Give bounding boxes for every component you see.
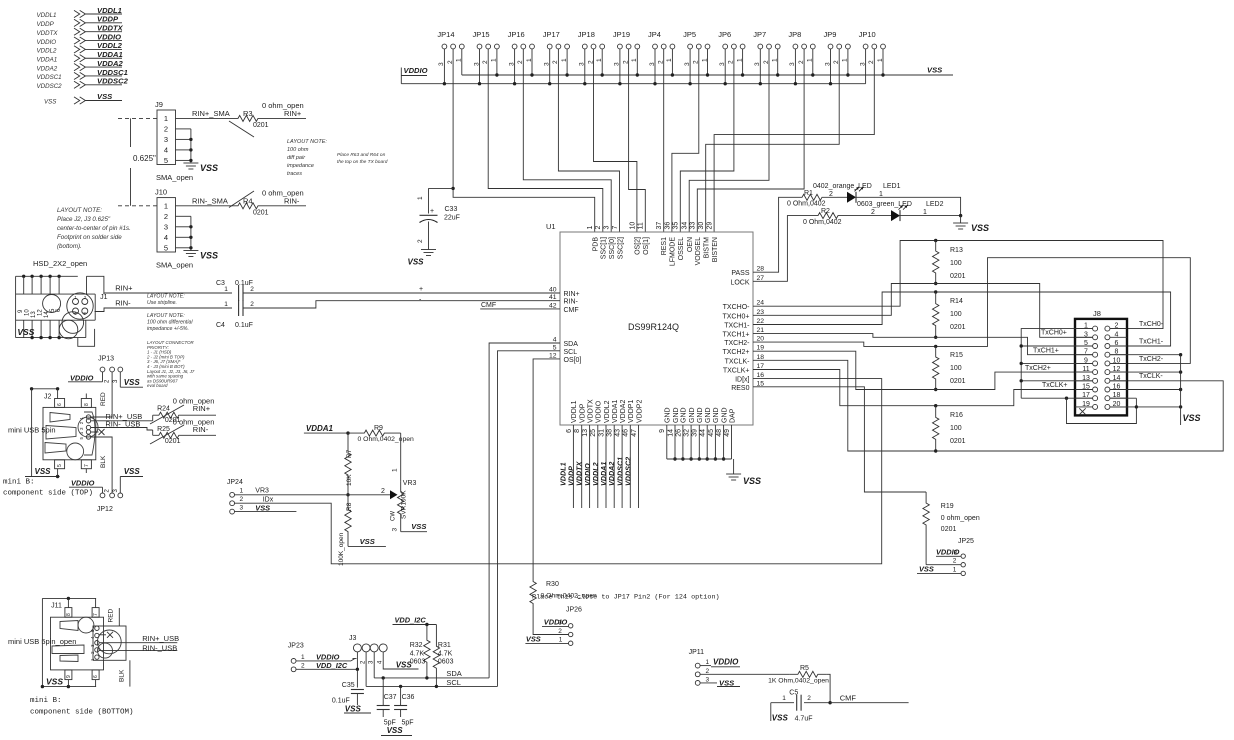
svg-text:1: 1 [224, 286, 228, 293]
wire net TXCH2+ U1 pin19 to J8 pin11 [753, 351, 1092, 389]
wire RIN-_USB from J2 pin3 [91, 420, 153, 430]
svg-text:JP14: JP14 [437, 30, 454, 39]
svg-text:BISTEN: BISTEN [712, 237, 719, 262]
connector J10 (SMA_open) [155, 188, 193, 270]
svg-text:VDDIO: VDDIO [71, 479, 95, 488]
LED LED2 0603_green_LED [853, 201, 944, 221]
svg-text:TXCH2+: TXCH2+ [722, 349, 749, 356]
svg-text:RED: RED [100, 392, 107, 406]
svg-text:VSS: VSS [919, 565, 934, 574]
svg-text:13: 13 [31, 311, 37, 318]
wire JP16 pin2 to U1 pin 3 [523, 49, 611, 232]
svg-text:center-to-center of pin #1s.: center-to-center of pin #1s. [57, 225, 131, 232]
svg-text:46: 46 [623, 429, 630, 437]
connector JP25 [917, 538, 974, 576]
svg-text:0603_green_LED: 0603_green_LED [857, 201, 912, 208]
svg-text:39: 39 [692, 429, 699, 437]
svg-text:25: 25 [590, 429, 597, 437]
svg-text:VDDL2: VDDL2 [37, 48, 58, 55]
jumper JP15 [473, 30, 500, 66]
svg-text:VDDP: VDDP [37, 21, 55, 28]
svg-text:0201: 0201 [950, 273, 966, 280]
svg-text:100: 100 [950, 311, 962, 318]
layout note place J2 J3 [57, 207, 131, 250]
svg-text:the top on the TX board: the top on the TX board [337, 159, 388, 165]
svg-text:1: 1 [164, 202, 168, 211]
svg-text:0 Ohm,0402: 0 Ohm,0402 [787, 201, 826, 208]
svg-text:VDDTX: VDDTX [587, 399, 594, 423]
wire net TXCH1- U1 pin22 to J8 pin6 [753, 292, 1171, 346]
wire JP15 pin2 to U1 pin 2 [488, 49, 603, 232]
svg-text:LOCK: LOCK [730, 279, 749, 286]
svg-text:2: 2 [558, 628, 562, 635]
svg-text:7: 7 [1084, 349, 1088, 356]
U1 top pin numbers and names [587, 222, 719, 267]
wire R9 to VR3 pin1 [392, 433, 401, 481]
svg-text:R19: R19 [941, 503, 954, 510]
svg-text:GND: GND [689, 407, 696, 423]
svg-text:SDA: SDA [564, 341, 579, 348]
svg-text:SSC[0]: SSC[0] [609, 237, 616, 259]
wire J3 pin4 stub to VSS [383, 652, 418, 669]
svg-text:Footprint on solder side: Footprint on solder side [57, 234, 122, 241]
svg-text:JP11: JP11 [689, 649, 705, 656]
svg-text:0201: 0201 [950, 324, 966, 331]
svg-text:RIN-_USB: RIN-_USB [142, 644, 177, 653]
capacitor C35 0.1uF [332, 669, 364, 705]
resistor R2 0 Ohm 0402 [803, 208, 875, 226]
svg-text:RIN+: RIN+ [193, 404, 211, 413]
svg-text:component side (TOP): component side (TOP) [3, 490, 93, 498]
svg-text:RIN-: RIN- [115, 299, 131, 308]
wire RIN- row C4 to U1 pin 41 [243, 297, 560, 309]
resistor R7 10K [345, 433, 353, 495]
svg-text:2: 2 [417, 239, 424, 243]
junction R14 top [934, 290, 937, 293]
power input flag VDDP [37, 15, 123, 28]
svg-text:PASS: PASS [731, 270, 749, 277]
svg-text:48: 48 [716, 429, 723, 437]
svg-text:15: 15 [757, 380, 765, 387]
svg-text:R32: R32 [410, 642, 423, 649]
svg-text:100: 100 [950, 425, 962, 432]
svg-text:C35: C35 [342, 682, 355, 689]
svg-text:1: 1 [587, 226, 594, 230]
svg-text:OS[1]: OS[1] [643, 237, 650, 255]
ground symbol VSS at LEDs [953, 223, 989, 233]
svg-text:TXCHO-: TXCHO- [723, 304, 751, 311]
wire J8 pin18 stub [1111, 397, 1137, 399]
net label VSS at R8 [348, 537, 386, 546]
wire JP8 pin2 to U1 pin 33 [697, 49, 804, 232]
svg-text:0603: 0603 [410, 659, 426, 666]
net label VDDA1 [304, 424, 348, 433]
ground symbol VSS at J9 [183, 163, 218, 173]
svg-text:VDDP: VDDP [97, 15, 119, 24]
svg-text:C33: C33 [445, 206, 458, 213]
svg-text:17: 17 [757, 363, 765, 370]
svg-text:0.625": 0.625" [133, 154, 156, 163]
svg-text:traces: traces [287, 171, 302, 177]
power input flag VDDL2 [37, 41, 123, 54]
svg-text:21: 21 [757, 327, 765, 334]
jumper JP14 [437, 30, 464, 66]
svg-text:VDDIO: VDDIO [713, 658, 739, 667]
capacitor C36 5pF [394, 686, 414, 726]
svg-text:2: 2 [953, 558, 957, 565]
connector J2 mini USB 5pin [8, 394, 98, 469]
svg-text:VSS: VSS [772, 714, 789, 723]
U1 left pin numbers and names [549, 287, 582, 364]
wire net SCL row [366, 678, 497, 688]
svg-text:3: 3 [558, 619, 562, 626]
svg-text:LAYOUT NOTE:: LAYOUT NOTE: [287, 139, 327, 145]
resistor R19 0 ohm_open 0201 [923, 492, 980, 565]
svg-text:3: 3 [164, 223, 168, 232]
layout note connector priority [146, 340, 195, 388]
svg-text:10K: 10K [346, 474, 353, 486]
svg-text:SCL: SCL [564, 349, 578, 356]
svg-text:J8: J8 [1093, 309, 1101, 318]
svg-text:VSS: VSS [927, 66, 942, 75]
svg-text:C4: C4 [216, 322, 225, 329]
resistor R3 0 ohm_open 0201 [228, 101, 304, 137]
svg-text:Use stripline.: Use stripline. [147, 300, 177, 306]
svg-text:PDB: PDB [593, 237, 600, 252]
net label VDDIO at JP13 pin1 [68, 372, 103, 383]
svg-text:(bottom).: (bottom). [57, 243, 82, 250]
svg-text:RES0: RES0 [731, 385, 749, 392]
svg-text:38: 38 [607, 429, 614, 437]
wire RIN+ net label at R3 [268, 109, 306, 118]
svg-text:JP18: JP18 [578, 30, 595, 39]
svg-text:5pF: 5pF [402, 720, 414, 727]
svg-text:1: 1 [224, 301, 228, 308]
svg-text:R31: R31 [438, 642, 451, 649]
power input flag VDDA2 [37, 59, 124, 72]
wire OS[0] from U1 pin 12 to R30 [533, 359, 560, 578]
connector JP13 [98, 356, 123, 384]
no-connect X on J8 pin 19 [1079, 408, 1085, 414]
power input flag VDDSC2 [37, 77, 129, 90]
svg-text:JP4: JP4 [648, 30, 661, 39]
wire RIN-_SMA from J10 pin 1 [176, 196, 229, 205]
svg-text:3: 3 [1084, 331, 1088, 338]
svg-text:4.7uF: 4.7uF [795, 716, 813, 723]
svg-text:SMA_open: SMA_open [156, 261, 193, 270]
svg-text:44: 44 [700, 429, 707, 437]
svg-text:1: 1 [923, 209, 927, 216]
wire jumper pin3 stubs to VDDIO rail [443, 49, 866, 86]
svg-text:Place this close to JP17 Pin2: Place this close to JP17 Pin2 (For 124 o… [532, 594, 720, 602]
svg-text:VSS: VSS [17, 327, 34, 337]
svg-text:VDDSC1: VDDSC1 [97, 68, 128, 77]
svg-text:19: 19 [1082, 401, 1090, 408]
svg-text:J9: J9 [155, 100, 163, 109]
svg-text:R9: R9 [374, 425, 383, 432]
svg-text:SCL: SCL [446, 678, 461, 687]
wire JP5 pin2 to U1 pin 36 [672, 49, 699, 232]
connector JP26 [525, 607, 582, 646]
svg-text:JP8: JP8 [788, 30, 801, 39]
svg-text:3: 3 [604, 226, 611, 230]
svg-text:VDDSC1: VDDSC1 [37, 74, 62, 81]
jumper JP9 [824, 30, 851, 66]
svg-text:GND: GND [713, 407, 720, 423]
svg-text:VSS: VSS [200, 251, 218, 261]
wire BLK J2 pin5 to JP12 [91, 437, 112, 493]
svg-text:VDDA2: VDDA2 [97, 59, 124, 68]
svg-text:VODSEL: VODSEL [695, 237, 702, 266]
net label VSS at C5 [771, 703, 789, 723]
svg-text:JP19: JP19 [613, 30, 630, 39]
wire wiper row JP24 pin1 to VR3 arrow [235, 494, 384, 496]
svg-text:4: 4 [553, 337, 557, 344]
net label VDDIO at JP23 pin1 [296, 652, 355, 661]
svg-text:RIN-_USB: RIN-_USB [105, 420, 140, 429]
svg-text:RIN+: RIN+ [564, 291, 580, 298]
junction R15 bottom [934, 388, 937, 391]
svg-text:VSS: VSS [97, 92, 112, 101]
svg-text:JP26: JP26 [566, 607, 582, 614]
svg-text:component side (BOTTOM): component side (BOTTOM) [30, 709, 134, 717]
svg-text:RIN+_SMA: RIN+_SMA [192, 109, 230, 118]
svg-text:10: 10 [629, 222, 636, 230]
svg-text:19: 19 [757, 345, 765, 352]
wire SCL from U1 pin 5 [498, 351, 561, 687]
svg-text:RED: RED [107, 608, 114, 622]
svg-text:GND: GND [705, 407, 712, 423]
svg-text:CMF: CMF [840, 694, 857, 703]
connector J9 (SMA_open) [155, 100, 193, 182]
wire JP4 pin2 to U1 pin 37 [663, 49, 665, 232]
wire J3 pin2 stub to SCL [365, 652, 367, 687]
svg-text:0 ohm_open: 0 ohm_open [941, 515, 980, 522]
power input flag VDDTX [37, 24, 124, 37]
svg-text:12: 12 [38, 309, 44, 316]
svg-text:R2: R2 [821, 208, 830, 215]
jumper JP8 [788, 30, 815, 66]
svg-text:VSS: VSS [124, 467, 141, 476]
svg-text:+: + [430, 208, 434, 215]
junction PDB / C33 branch [451, 187, 454, 190]
svg-text:Place R63 and R64 on: Place R63 and R64 on [337, 152, 386, 158]
svg-text:2: 2 [250, 301, 254, 308]
svg-text:R25: R25 [157, 426, 170, 433]
svg-text:C36: C36 [402, 694, 415, 701]
wire JP19 pin2 to U1 pin 11 [629, 49, 646, 232]
svg-text:TXCH1+: TXCH1+ [722, 332, 749, 339]
svg-text:100K_open: 100K_open [338, 532, 345, 566]
svg-text:U1: U1 [546, 222, 556, 231]
resistor R14 100 0201 [933, 292, 966, 337]
svg-text:TxCH0+: TxCH0+ [1041, 330, 1067, 337]
resistor R5 1K Ohm 0402_open [768, 665, 829, 685]
svg-text:37: 37 [656, 222, 663, 230]
wire net SDA row [374, 669, 489, 680]
wire J11 shield frame to VSS [41, 597, 96, 689]
svg-text:1K Ohm,0402_open: 1K Ohm,0402_open [768, 678, 829, 685]
svg-text:VSS: VSS [411, 522, 426, 531]
potentiometer VR3 SVR100K [381, 480, 417, 532]
connector JP23 [288, 643, 305, 672]
svg-text:GND: GND [673, 407, 680, 423]
svg-text:BLK: BLK [100, 455, 107, 468]
svg-text:TxCH0-: TxCH0- [1139, 321, 1164, 328]
svg-text:VSS: VSS [345, 705, 362, 714]
svg-text:VDDP1: VDDP1 [628, 400, 635, 423]
svg-text:VDDSC2: VDDSC2 [37, 83, 63, 90]
net label VSS at JP13 pin3 [120, 372, 143, 387]
svg-text:10: 10 [1113, 357, 1121, 364]
svg-text:JP23: JP23 [288, 643, 304, 650]
wire J8 pin20 to VSS [1111, 405, 1181, 408]
ground symbol VSS at C33 [408, 250, 437, 267]
svg-text:2: 2 [595, 226, 602, 230]
wire CMF stub at U1 pin 42 [480, 302, 560, 309]
svg-text:J3: J3 [349, 635, 357, 642]
resistor R25 0 ohm_open 0201 [150, 418, 214, 446]
connector J8 body [1075, 309, 1127, 415]
jumper JP5 [683, 30, 710, 66]
svg-text:42: 42 [549, 302, 557, 309]
svg-text:2: 2 [164, 212, 168, 221]
resistor R15 100 0201 [933, 346, 966, 389]
svg-text:5: 5 [57, 464, 63, 467]
capacitor C37 5pF [377, 678, 397, 727]
capacitor C3 0.1uF [216, 280, 254, 301]
svg-text:RIN-: RIN- [284, 196, 300, 205]
svg-text:1: 1 [417, 196, 424, 200]
wire J8 pin17 to pin20 bottom loop [1065, 397, 1137, 424]
svg-text:35: 35 [673, 222, 680, 230]
svg-text:2: 2 [240, 496, 244, 503]
wire JP17 pin2 to U1 pin 7 [558, 49, 619, 232]
svg-text:R5: R5 [800, 665, 809, 672]
svg-text:8: 8 [84, 403, 90, 406]
wire J2 shield to VSS frame [25, 387, 86, 478]
svg-text:VDD_I2C: VDD_I2C [316, 661, 348, 670]
resistor R16 100 0201 [933, 406, 966, 451]
svg-text:R3: R3 [243, 109, 253, 118]
svg-text:OSSEL: OSSEL [678, 237, 685, 260]
svg-text:RIN-: RIN- [564, 299, 579, 306]
svg-text:32: 32 [684, 429, 691, 437]
svg-text:RES1: RES1 [661, 237, 668, 255]
svg-text:eval board: eval board [147, 383, 168, 388]
svg-text:30: 30 [698, 222, 705, 230]
svg-text:22: 22 [757, 318, 765, 325]
svg-text:0 Ohm,0402: 0 Ohm,0402 [803, 219, 842, 226]
svg-text:6: 6 [93, 675, 99, 678]
wire RIN+_USB from J11 [99, 634, 179, 643]
svg-text:R7: R7 [346, 449, 353, 458]
svg-text:2: 2 [807, 695, 811, 702]
svg-text:22uF: 22uF [444, 215, 460, 222]
wire JP7 pin2 to U1 pin 34 [689, 49, 769, 232]
svg-text:0 Ohm,0402_open: 0 Ohm,0402_open [358, 436, 415, 443]
jumper JP10 [859, 30, 886, 66]
svg-text:26: 26 [675, 429, 682, 437]
svg-text:CW: CW [391, 511, 397, 521]
layout note near J9 [287, 139, 388, 177]
wire U1 pin27 LOCK to R2 [753, 216, 803, 282]
svg-text:BLK: BLK [118, 669, 125, 682]
wire J1 RIN- output [95, 299, 232, 312]
svg-text:JP13: JP13 [98, 356, 114, 363]
svg-text:SSC[2]: SSC[2] [617, 237, 624, 259]
svg-text:2: 2 [871, 209, 875, 216]
svg-text:VSS: VSS [35, 467, 52, 476]
jumper JP4 [648, 30, 675, 66]
net label VDDIO at JP11 pin1 [700, 658, 740, 667]
svg-text:3: 3 [954, 549, 958, 556]
svg-text:100: 100 [950, 365, 962, 372]
svg-text:impedance +/-5%.: impedance +/-5%. [147, 326, 189, 332]
svg-text:VSS: VSS [44, 99, 57, 106]
svg-text:1: 1 [782, 695, 786, 702]
svg-text:0201: 0201 [253, 122, 269, 129]
jumper JP16 [508, 30, 535, 66]
svg-text:0201: 0201 [950, 438, 966, 445]
svg-text:VSS: VSS [1183, 413, 1201, 423]
svg-text:VDD_I2C: VDD_I2C [395, 615, 427, 624]
svg-text:VDDP: VDDP [580, 403, 587, 423]
svg-text:6: 6 [57, 403, 63, 406]
wire RIN+_SMA from J9 pin 1 [176, 109, 230, 118]
wire jumper pin1 stubs to VSS rail [462, 49, 885, 77]
svg-text:VDDL1: VDDL1 [571, 400, 578, 423]
svg-text:9: 9 [659, 429, 666, 433]
svg-text:4: 4 [164, 146, 168, 155]
svg-text:VDDA1: VDDA1 [612, 400, 619, 423]
svg-text:impedance: impedance [287, 163, 314, 169]
capacitor C33 22uF [417, 196, 460, 250]
svg-text:VDDIO: VDDIO [596, 400, 603, 423]
net label VSS at C35 [344, 705, 371, 714]
svg-text:TxCLK+: TxCLK+ [1042, 382, 1067, 389]
svg-text:0.1uF: 0.1uF [235, 322, 253, 329]
ground symbol VSS at J10 [183, 251, 218, 261]
svg-text:5: 5 [164, 244, 168, 253]
svg-text:JP25: JP25 [958, 538, 974, 545]
svg-text:100 ohm differential: 100 ohm differential [147, 320, 193, 326]
J8 pin circles and numbers [1075, 323, 1127, 410]
svg-text:3: 3 [164, 135, 168, 144]
svg-text:VDDTX: VDDTX [37, 30, 59, 37]
power input flag VDDA1 [37, 50, 123, 63]
svg-text:45: 45 [708, 429, 715, 437]
svg-text:5: 5 [164, 156, 168, 165]
svg-text:LAYOUT NOTE:: LAYOUT NOTE: [147, 313, 185, 319]
svg-text:47: 47 [631, 429, 638, 437]
net label VDD_I2C at R31 R32 [393, 615, 437, 626]
wire JP18 pin2 to U1 pin 10 [594, 49, 637, 232]
svg-text:RIN+: RIN+ [115, 284, 133, 293]
wire JP10 pin2 to U1 pin 29 [714, 49, 874, 232]
svg-text:R1: R1 [804, 190, 813, 197]
svg-text:CMF: CMF [481, 302, 496, 309]
svg-text:VDDTX: VDDTX [97, 24, 124, 33]
svg-text:12: 12 [549, 352, 557, 359]
power input flag VDDIO [37, 32, 123, 45]
wire U1 VDD power pin stubs with net names [558, 425, 638, 508]
svg-text:VDDA2: VDDA2 [37, 65, 58, 72]
svg-text:VDDIO: VDDIO [70, 374, 94, 383]
svg-text:TXCH2-: TXCH2- [724, 340, 750, 347]
svg-text:JP24: JP24 [227, 479, 243, 486]
svg-text:2: 2 [1115, 323, 1119, 330]
